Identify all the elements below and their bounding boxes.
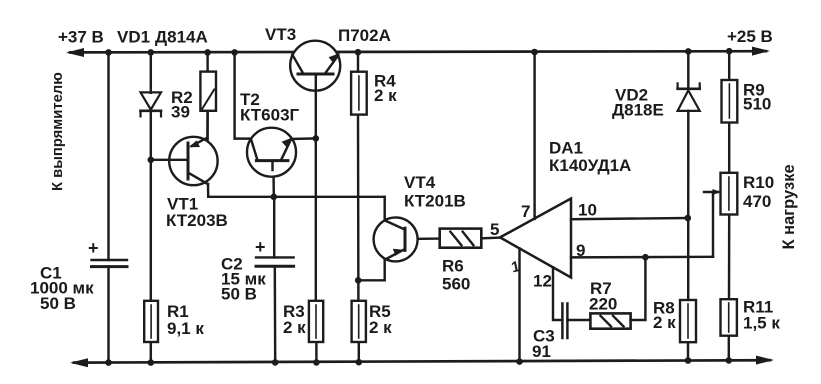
junction T2 collector top rail (231, 49, 238, 56)
node T2 base C2 (271, 194, 278, 201)
resistor R9 (722, 80, 738, 123)
svg-text:2 к: 2 к (374, 86, 397, 105)
svg-text:2 к: 2 к (283, 318, 306, 337)
svg-text:9: 9 (576, 241, 585, 260)
svg-text:9,1 к: 9,1 к (167, 319, 204, 338)
transistor VT3 (290, 41, 340, 91)
junction VD2 top rail (685, 48, 692, 55)
junction R8 bottom rail (685, 357, 692, 364)
junction R11 bottom rail (726, 357, 733, 364)
resistor R6 (440, 229, 482, 248)
svg-text:КТ203В: КТ203В (166, 211, 228, 230)
node R7 pin9 (642, 254, 649, 261)
svg-text:1,5 к: 1,5 к (743, 314, 780, 333)
svg-text:КТ201В: КТ201В (404, 192, 466, 211)
resistor R10 trimmer (721, 173, 738, 215)
wire C1 column (107, 52, 109, 260)
wire R6 to op-amp pin5 (481, 236, 500, 239)
node VD1 VT1 base R1 (148, 157, 155, 164)
resistor R4 (351, 72, 367, 115)
capacitor C3 (561, 304, 564, 339)
svg-text:П702А: П702А (338, 26, 391, 45)
svg-text:7: 7 (521, 202, 530, 221)
wire C3 to R7 (567, 319, 590, 321)
wire wiper riser to pin9 line (712, 192, 714, 257)
resistor R11 (721, 299, 737, 336)
op-amp DA1 triangle (500, 199, 571, 278)
wire T2 base riser / C2 column (272, 161, 275, 197)
svg-text:91: 91 (532, 342, 551, 361)
resistor R8 (680, 300, 696, 342)
junction pin1 bottom rail (516, 358, 523, 365)
resistor R3 (309, 301, 323, 342)
svg-text:5: 5 (490, 220, 499, 239)
transistor VT4 (374, 217, 418, 261)
junction R4 top rail (355, 49, 362, 56)
wire base line VT1-collector to T2/VT4 (208, 184, 385, 197)
svg-text:470: 470 (743, 192, 771, 211)
svg-text:2 к: 2 к (369, 318, 392, 337)
junction C2 bottom rail (272, 359, 279, 366)
wire R4/R5 column (357, 52, 359, 71)
wire R10 wiper tap (704, 191, 718, 193)
resistor R5 (352, 301, 366, 342)
node T2 emitter VT3 base R3 (313, 135, 320, 142)
svg-text:VT3: VT3 (265, 25, 296, 44)
diode VD1 zener (141, 92, 162, 109)
svg-text:R10: R10 (743, 173, 774, 192)
svg-text:КТ603Г: КТ603Г (240, 106, 300, 125)
svg-text:+: + (255, 237, 266, 257)
resistor R7 (590, 313, 630, 328)
diode VD2 zener (678, 90, 700, 111)
wire T2 emitter to VT3 base node (290, 137, 315, 140)
wire VD2/R8 column (687, 51, 689, 88)
svg-text:10: 10 (578, 201, 597, 220)
wire R2 column (206, 52, 208, 71)
svg-text:510: 510 (743, 95, 771, 114)
node VD2 R8 pin10 (685, 215, 692, 222)
junction R5 bottom rail (356, 359, 363, 366)
svg-text:К140УД1А: К140УД1А (549, 156, 631, 175)
wire R7 riser to pin9 line (631, 257, 646, 320)
junction VD1 top rail (148, 49, 155, 56)
svg-text:+: + (88, 238, 99, 258)
capacitor C1 (92, 259, 128, 261)
svg-text:VD1: VD1 (117, 28, 150, 47)
transistor T2 (247, 128, 296, 177)
wire top rail +37V/+25V (70, 51, 766, 52)
wire pin10 line (571, 218, 688, 219)
node top-right arrow (752, 47, 770, 56)
node bottom-left arrow (70, 358, 88, 367)
svg-text:2 к: 2 к (653, 313, 676, 332)
wire pin7 riser (533, 52, 535, 219)
wire pin12 to C3 (553, 267, 562, 320)
svg-text:R6: R6 (442, 257, 464, 276)
junction pin7 top rail (531, 49, 538, 56)
wire VT3 base / R3 column (315, 74, 317, 301)
wire VT4 base to R6 (405, 237, 440, 240)
capacitor C2 (256, 256, 294, 258)
wire pin9 line (571, 256, 713, 259)
svg-text:50 В: 50 В (40, 294, 76, 313)
junction R1 bottom rail (148, 359, 155, 366)
wire T2 collector riser (235, 52, 251, 138)
svg-text:+37 В: +37 В (58, 28, 104, 47)
node bottom-right arrow (756, 356, 774, 365)
node top-left arrow (66, 48, 84, 57)
wire VT4 emitter to R4R5 column (358, 260, 385, 281)
junction C1 top rail (105, 49, 112, 56)
svg-text:К выпрямителю: К выпрямителю (50, 72, 66, 191)
svg-text:Д818Е: Д818Е (612, 101, 664, 120)
svg-text:12: 12 (533, 272, 552, 291)
svg-text:560: 560 (442, 275, 470, 294)
resistor R1 (144, 301, 158, 342)
svg-text:DA1: DA1 (549, 139, 583, 158)
svg-text:К нагрузке: К нагрузке (780, 164, 798, 249)
junction R3 bottom rail (313, 359, 320, 366)
svg-text:VT4: VT4 (404, 173, 436, 192)
wire bottom rail (74, 360, 770, 362)
svg-text:50 В: 50 В (221, 285, 257, 304)
junction R2 top rail (204, 49, 211, 56)
junction R9 top rail (726, 48, 733, 55)
svg-text:+25 В: +25 В (727, 27, 773, 46)
svg-text:Д814А: Д814А (155, 28, 208, 47)
svg-text:39: 39 (171, 103, 190, 122)
transistor VT1 (169, 137, 217, 185)
wire VD1/R1 column (150, 52, 152, 92)
wire pin1 drop (518, 249, 520, 363)
wire R9/R10/R11 column (728, 51, 730, 80)
junction C1 bottom rail (105, 359, 112, 366)
svg-text:220: 220 (589, 295, 617, 314)
node VT4 emitter R4 R5 (355, 277, 362, 284)
resistor R2 (200, 72, 216, 111)
